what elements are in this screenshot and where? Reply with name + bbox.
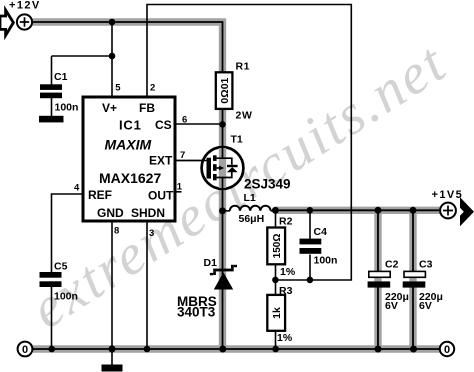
svg-text:2W: 2W — [236, 110, 253, 122]
svg-text:V+: V+ — [102, 101, 117, 115]
svg-text:6V: 6V — [385, 300, 398, 312]
svg-text:R2: R2 — [279, 216, 293, 228]
svg-text:C5: C5 — [54, 261, 68, 273]
svg-text:0Ω01: 0Ω01 — [219, 77, 231, 103]
svg-text:MAXIM: MAXIM — [105, 137, 152, 153]
svg-text:OUT: OUT — [148, 189, 174, 203]
svg-text:100n: 100n — [55, 102, 79, 114]
svg-text:MAX1627: MAX1627 — [99, 170, 161, 186]
svg-text:2SJ349: 2SJ349 — [244, 177, 291, 192]
svg-text:5: 5 — [115, 83, 121, 94]
svg-text:2: 2 — [150, 83, 155, 94]
svg-text:1k: 1k — [271, 307, 283, 319]
svg-text:EXT: EXT — [149, 154, 173, 168]
svg-text:150Ω: 150Ω — [272, 234, 283, 259]
svg-text:GND: GND — [97, 206, 124, 220]
svg-text:IC1: IC1 — [119, 118, 142, 133]
svg-text:100n: 100n — [314, 255, 338, 267]
svg-text:C1: C1 — [54, 71, 68, 83]
svg-text:100n: 100n — [54, 291, 78, 303]
svg-text:3: 3 — [149, 228, 154, 239]
svg-text:D1: D1 — [204, 257, 218, 269]
svg-text:340T3: 340T3 — [177, 305, 216, 320]
svg-text:CS: CS — [155, 118, 172, 132]
svg-text:C4: C4 — [314, 226, 328, 238]
svg-text:+1V5: +1V5 — [432, 189, 464, 201]
svg-text:4: 4 — [74, 183, 80, 194]
svg-text:R3: R3 — [279, 285, 293, 297]
svg-text:6: 6 — [182, 115, 187, 126]
svg-text:56μH: 56μH — [239, 213, 265, 225]
svg-text:FB: FB — [139, 101, 155, 115]
svg-text:C3: C3 — [419, 259, 433, 271]
svg-text:8: 8 — [114, 226, 119, 237]
svg-text:C2: C2 — [385, 259, 399, 271]
svg-text:T1: T1 — [231, 134, 243, 146]
svg-text:R1: R1 — [236, 61, 251, 73]
svg-text:0: 0 — [444, 344, 450, 356]
svg-text:SHDN: SHDN — [131, 206, 165, 220]
svg-text:L1: L1 — [244, 192, 256, 204]
svg-text:REF: REF — [88, 188, 112, 202]
svg-text:+12V: +12V — [9, 0, 41, 12]
svg-text:6V: 6V — [419, 300, 432, 312]
svg-text:7: 7 — [180, 150, 185, 161]
svg-text:1%: 1% — [280, 266, 296, 278]
svg-text:0: 0 — [22, 344, 28, 356]
svg-text:1: 1 — [177, 182, 183, 193]
svg-text:1%: 1% — [277, 332, 293, 344]
